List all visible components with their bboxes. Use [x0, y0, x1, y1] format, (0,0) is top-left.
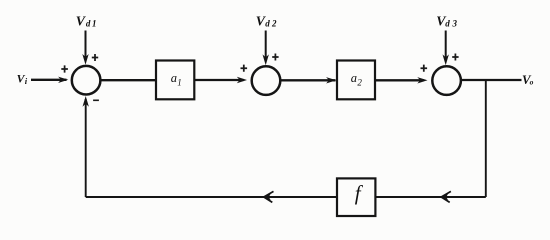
svg-text:2: 2 [357, 77, 362, 87]
svg-text:1: 1 [177, 77, 182, 87]
svg-text:d: d [445, 19, 450, 29]
svg-text:2: 2 [271, 18, 277, 28]
svg-text:o: o [530, 78, 534, 87]
svg-text:d: d [86, 19, 91, 29]
svg-text:3: 3 [452, 18, 458, 28]
svg-text:1: 1 [92, 18, 97, 28]
svg-text:d: d [265, 19, 270, 29]
svg-text:a: a [171, 71, 177, 85]
svg-text:a: a [351, 71, 357, 85]
